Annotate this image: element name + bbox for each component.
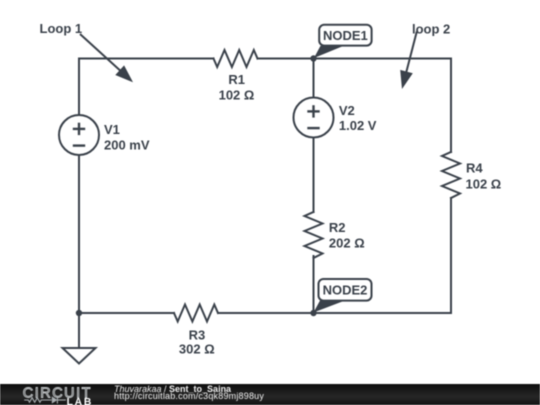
svg-text:loop 2: loop 2 (412, 21, 450, 36)
svg-text:302 Ω: 302 Ω (179, 341, 215, 356)
svg-text:1.02 V: 1.02 V (339, 118, 377, 133)
svg-text:Loop 1: Loop 1 (40, 21, 83, 36)
svg-text:LAB: LAB (67, 397, 94, 405)
svg-text:R2: R2 (329, 220, 346, 235)
svg-text:200 mV: 200 mV (104, 138, 150, 153)
svg-text:102 Ω: 102 Ω (466, 176, 502, 191)
svg-text:202 Ω: 202 Ω (329, 235, 365, 250)
svg-text:NODE2: NODE2 (323, 283, 368, 298)
svg-text:R1: R1 (228, 72, 245, 87)
svg-text:R4: R4 (466, 161, 483, 176)
svg-text:V2: V2 (339, 103, 355, 118)
svg-text:V1: V1 (104, 122, 120, 137)
svg-text:102 Ω: 102 Ω (219, 87, 255, 102)
svg-text:R3: R3 (189, 327, 206, 342)
svg-text:NODE1: NODE1 (323, 28, 368, 43)
